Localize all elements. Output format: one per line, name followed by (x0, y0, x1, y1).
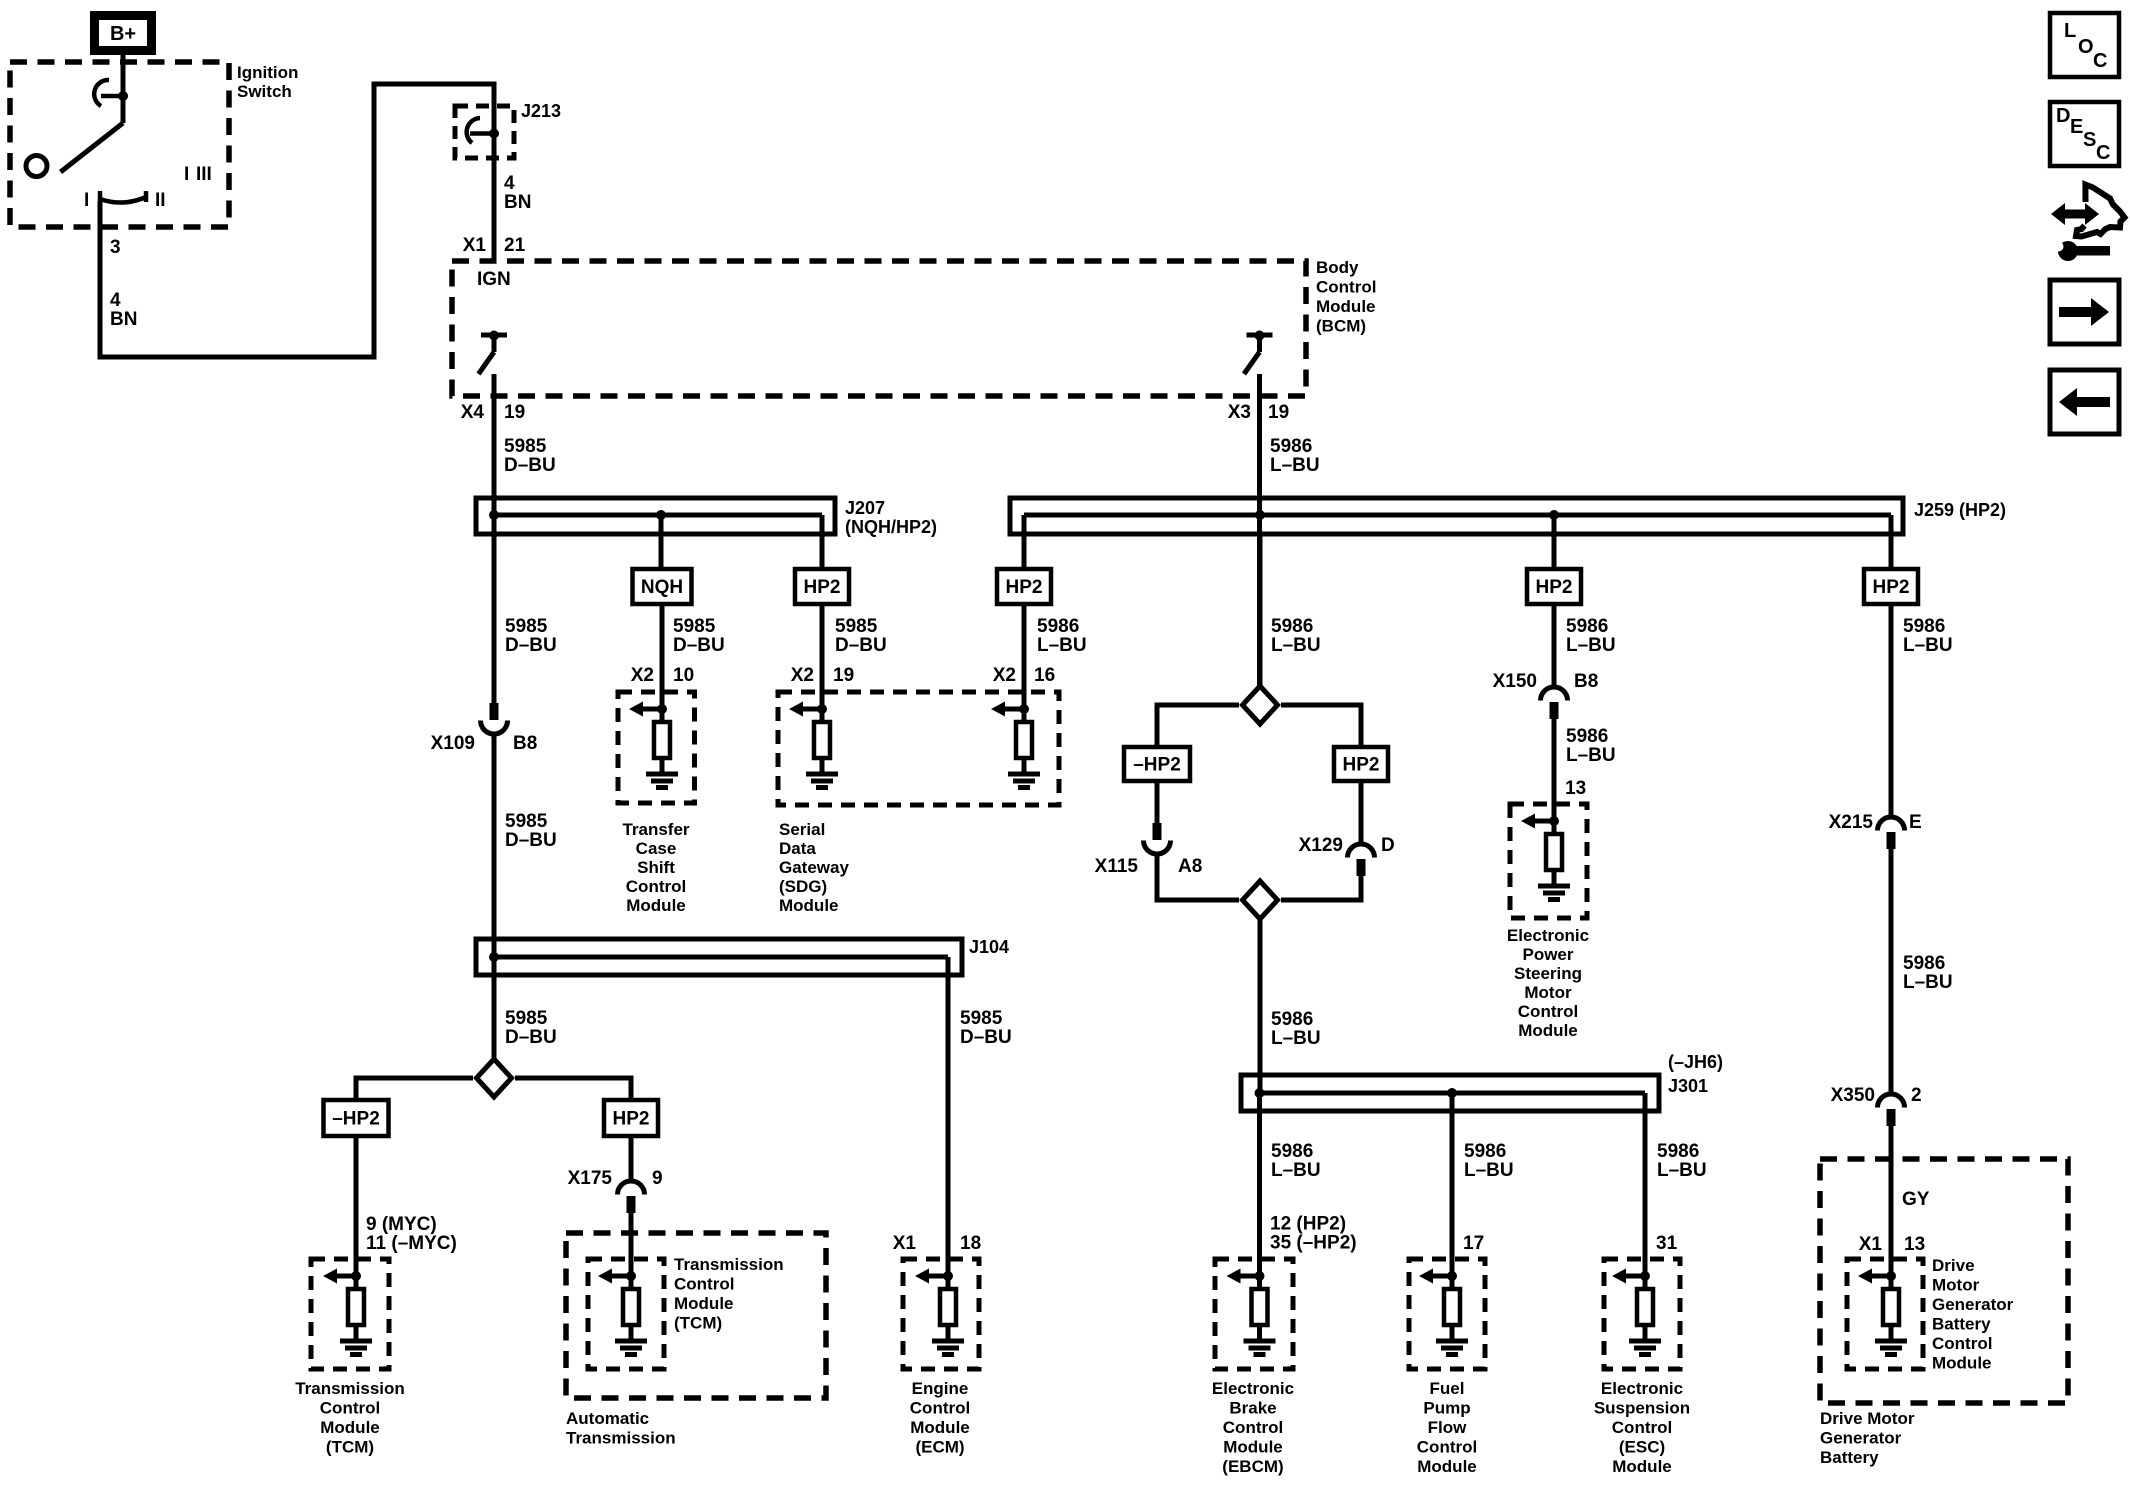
svg-text:5986: 5986 (1566, 726, 1608, 747)
svg-text:X1: X1 (893, 1233, 917, 1254)
svg-text:Transmission: Transmission (295, 1379, 405, 1398)
svg-text:X129: X129 (1299, 835, 1343, 856)
svg-text:Ignition: Ignition (237, 63, 298, 82)
svg-text:Control: Control (1518, 1002, 1578, 1021)
svg-text:C: C (2096, 142, 2110, 164)
svg-text:Module: Module (320, 1418, 380, 1437)
svg-text:IGN: IGN (477, 269, 511, 290)
svg-text:J104: J104 (969, 937, 1009, 957)
svg-text:12 (HP2): 12 (HP2) (1270, 1214, 1346, 1235)
svg-text:NQH: NQH (641, 577, 683, 598)
svg-text:E: E (2070, 116, 2083, 138)
svg-text:3: 3 (110, 237, 121, 258)
svg-text:J301: J301 (1668, 1076, 1708, 1096)
svg-text:(–JH6): (–JH6) (1668, 1052, 1723, 1072)
svg-text:Gateway: Gateway (779, 858, 849, 877)
svg-text:Transfer: Transfer (622, 820, 689, 839)
svg-text:A8: A8 (1178, 856, 1202, 877)
svg-text:B+: B+ (110, 23, 136, 45)
svg-text:10: 10 (673, 665, 694, 686)
svg-text:X150: X150 (1493, 671, 1537, 692)
svg-text:19: 19 (1268, 402, 1289, 423)
svg-text:HP2: HP2 (1343, 755, 1380, 776)
svg-text:HP2: HP2 (1006, 577, 1043, 598)
svg-text:L–BU: L–BU (1903, 635, 1953, 656)
svg-text:Control: Control (626, 877, 686, 896)
svg-text:Generator: Generator (1820, 1429, 1902, 1448)
svg-text:Module: Module (1518, 1021, 1578, 1040)
svg-text:III: III (196, 164, 212, 185)
svg-text:X115: X115 (1095, 856, 1139, 877)
svg-text:HP2: HP2 (1536, 577, 1573, 598)
svg-text:Power: Power (1522, 945, 1573, 964)
svg-text:O: O (2078, 36, 2094, 58)
svg-text:16: 16 (1034, 665, 1055, 686)
svg-text:X215: X215 (1829, 812, 1874, 833)
svg-text:Module: Module (1932, 1354, 1992, 1373)
svg-text:5985: 5985 (505, 811, 548, 832)
svg-text:Electronic: Electronic (1212, 1379, 1294, 1398)
svg-text:I: I (84, 190, 89, 211)
svg-text:L–BU: L–BU (1464, 1160, 1514, 1181)
svg-text:B8: B8 (513, 733, 537, 754)
svg-text:D–BU: D–BU (504, 455, 556, 476)
svg-text:L–BU: L–BU (1270, 455, 1320, 476)
svg-text:D–BU: D–BU (505, 635, 557, 656)
svg-text:Control: Control (1316, 278, 1376, 297)
svg-text:Module: Module (626, 896, 686, 915)
svg-text:Engine: Engine (912, 1379, 969, 1398)
svg-text:13: 13 (1904, 1234, 1925, 1255)
svg-text:5986: 5986 (1271, 1141, 1313, 1162)
svg-text:Suspension: Suspension (1594, 1399, 1690, 1418)
svg-text:(EBCM): (EBCM) (1222, 1457, 1283, 1476)
svg-text:L–BU: L–BU (1903, 972, 1953, 993)
svg-text:Module: Module (910, 1418, 970, 1437)
svg-text:GY: GY (1902, 1189, 1930, 1210)
svg-text:B8: B8 (1574, 671, 1598, 692)
svg-text:Battery: Battery (1820, 1448, 1879, 1467)
svg-text:BN: BN (110, 309, 137, 330)
svg-text:D: D (2056, 105, 2070, 127)
svg-text:X4: X4 (461, 402, 485, 423)
svg-text:L–BU: L–BU (1566, 745, 1616, 766)
svg-text:9 (MYC): 9 (MYC) (366, 1214, 437, 1235)
svg-text:E: E (1909, 812, 1922, 833)
svg-text:5986: 5986 (1657, 1141, 1699, 1162)
svg-text:D: D (1381, 835, 1395, 856)
svg-text:Module: Module (1417, 1457, 1477, 1476)
svg-text:5986: 5986 (1903, 616, 1945, 637)
svg-text:L–BU: L–BU (1566, 635, 1616, 656)
svg-text:X2: X2 (631, 665, 654, 686)
svg-text:13: 13 (1565, 778, 1586, 799)
svg-text:(ECM): (ECM) (915, 1438, 964, 1457)
svg-text:5985: 5985 (505, 1008, 548, 1029)
svg-text:D–BU: D–BU (835, 635, 887, 656)
svg-text:J213: J213 (521, 101, 561, 121)
svg-text:(SDG): (SDG) (779, 877, 827, 896)
svg-text:L–BU: L–BU (1271, 635, 1321, 656)
svg-text:Serial: Serial (779, 820, 825, 839)
svg-text:5985: 5985 (835, 616, 878, 637)
svg-text:Motor: Motor (1932, 1276, 1980, 1295)
svg-text:I: I (184, 164, 189, 185)
svg-text:BN: BN (504, 192, 531, 213)
svg-text:19: 19 (504, 402, 525, 423)
svg-text:5986: 5986 (1037, 616, 1079, 637)
svg-text:Module: Module (674, 1294, 734, 1313)
svg-text:(TCM): (TCM) (326, 1438, 374, 1457)
svg-text:Module: Module (1223, 1438, 1283, 1457)
svg-text:X109: X109 (431, 733, 475, 754)
svg-text:2: 2 (1911, 1085, 1922, 1106)
svg-text:(ESC): (ESC) (1619, 1438, 1665, 1457)
svg-text:–HP2: –HP2 (332, 1109, 380, 1130)
svg-text:J259 (HP2): J259 (HP2) (1914, 500, 2006, 520)
svg-text:5985: 5985 (505, 616, 548, 637)
svg-text:X175: X175 (568, 1168, 613, 1189)
svg-text:4: 4 (504, 173, 515, 194)
svg-text:Motor: Motor (1524, 983, 1572, 1002)
svg-text:Module: Module (1612, 1457, 1672, 1476)
svg-text:Switch: Switch (237, 82, 292, 101)
svg-text:Control: Control (674, 1275, 734, 1294)
svg-text:Control: Control (1417, 1438, 1477, 1457)
svg-text:Drive Motor: Drive Motor (1820, 1409, 1915, 1428)
svg-text:(NQH/HP2): (NQH/HP2) (845, 517, 937, 537)
svg-text:9: 9 (652, 1168, 663, 1189)
svg-text:Steering: Steering (1514, 964, 1582, 983)
svg-text:S: S (2083, 129, 2096, 151)
svg-text:4: 4 (110, 290, 121, 311)
svg-text:L–BU: L–BU (1037, 635, 1087, 656)
svg-text:17: 17 (1463, 1233, 1484, 1254)
svg-text:Module: Module (779, 896, 839, 915)
svg-text:Automatic: Automatic (566, 1409, 649, 1428)
svg-text:L–BU: L–BU (1271, 1028, 1321, 1049)
svg-text:Shift: Shift (637, 858, 675, 877)
svg-text:(BCM): (BCM) (1316, 317, 1366, 336)
svg-text:X1: X1 (463, 235, 487, 256)
svg-text:5985: 5985 (504, 436, 547, 457)
svg-text:31: 31 (1656, 1233, 1678, 1254)
svg-text:19: 19 (833, 665, 854, 686)
svg-text:Flow: Flow (1428, 1418, 1467, 1437)
svg-text:18: 18 (960, 1233, 981, 1254)
svg-text:D–BU: D–BU (960, 1027, 1012, 1048)
svg-text:X1: X1 (1859, 1234, 1883, 1255)
svg-text:5986: 5986 (1271, 616, 1313, 637)
svg-text:Transmission: Transmission (566, 1429, 676, 1448)
svg-text:Control: Control (320, 1399, 380, 1418)
svg-text:II: II (155, 190, 166, 211)
svg-text:11 (–MYC): 11 (–MYC) (366, 1233, 457, 1254)
svg-text:L–BU: L–BU (1271, 1160, 1321, 1181)
svg-text:Generator: Generator (1932, 1295, 2014, 1314)
svg-text:HP2: HP2 (804, 577, 841, 598)
svg-text:5986: 5986 (1566, 616, 1608, 637)
svg-text:Module: Module (1316, 297, 1376, 316)
svg-text:Control: Control (1612, 1418, 1672, 1437)
svg-text:Battery: Battery (1932, 1315, 1991, 1334)
svg-text:5985: 5985 (960, 1008, 1003, 1029)
svg-text:Electronic: Electronic (1507, 926, 1589, 945)
svg-text:Data: Data (779, 839, 816, 858)
svg-text:5985: 5985 (673, 616, 716, 637)
svg-text:Body: Body (1316, 258, 1359, 277)
svg-text:Control: Control (1223, 1418, 1283, 1437)
svg-text:X350: X350 (1831, 1085, 1875, 1106)
svg-text:21: 21 (504, 235, 526, 256)
svg-text:5986: 5986 (1270, 436, 1312, 457)
svg-text:Fuel: Fuel (1430, 1379, 1465, 1398)
svg-text:C: C (2093, 50, 2107, 72)
svg-text:Electronic: Electronic (1601, 1379, 1683, 1398)
svg-text:D–BU: D–BU (505, 1027, 557, 1048)
svg-text:5986: 5986 (1903, 953, 1945, 974)
svg-text:Pump: Pump (1423, 1399, 1470, 1418)
svg-text:J207: J207 (845, 498, 885, 518)
svg-text:X2: X2 (993, 665, 1016, 686)
svg-text:5986: 5986 (1464, 1141, 1506, 1162)
svg-text:Control: Control (910, 1399, 970, 1418)
svg-text:HP2: HP2 (1873, 577, 1910, 598)
svg-text:L–BU: L–BU (1657, 1160, 1707, 1181)
svg-text:Transmission: Transmission (674, 1255, 784, 1274)
svg-text:D–BU: D–BU (505, 830, 557, 851)
svg-text:(TCM): (TCM) (674, 1314, 722, 1333)
svg-text:HP2: HP2 (613, 1109, 650, 1130)
svg-text:35 (–HP2): 35 (–HP2) (1270, 1233, 1357, 1254)
svg-text:X2: X2 (791, 665, 814, 686)
svg-text:Drive: Drive (1932, 1256, 1975, 1275)
svg-text:L: L (2064, 20, 2076, 42)
svg-text:Control: Control (1932, 1334, 1992, 1353)
svg-text:5986: 5986 (1271, 1009, 1313, 1030)
svg-text:–HP2: –HP2 (1133, 755, 1181, 776)
svg-text:X3: X3 (1228, 402, 1251, 423)
svg-text:D–BU: D–BU (673, 635, 725, 656)
svg-text:Brake: Brake (1229, 1399, 1276, 1418)
svg-text:Case: Case (636, 839, 677, 858)
